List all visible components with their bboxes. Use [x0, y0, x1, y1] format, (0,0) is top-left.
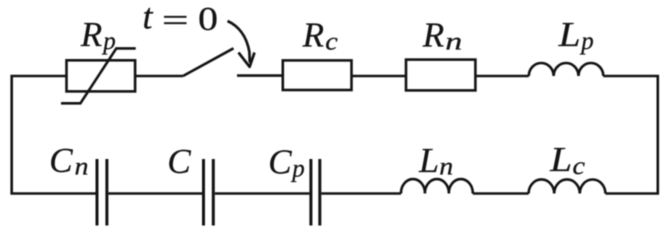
svg-text:c: c — [325, 28, 338, 55]
svg-text:C: C — [268, 143, 292, 182]
svg-text:C: C — [167, 142, 191, 181]
svg-text:=: = — [162, 2, 189, 38]
svg-text:t: t — [143, 0, 154, 36]
svg-text:L: L — [557, 15, 580, 54]
svg-text:R: R — [422, 16, 444, 55]
svg-text:L: L — [549, 140, 572, 179]
svg-text:n: n — [439, 153, 453, 180]
svg-text:c: c — [573, 153, 586, 180]
svg-text:p: p — [101, 28, 116, 55]
svg-text:p: p — [579, 28, 594, 55]
svg-text:n: n — [75, 153, 89, 180]
svg-text:p: p — [290, 156, 305, 183]
svg-text:0: 0 — [198, 1, 218, 38]
svg-text:n: n — [445, 28, 462, 55]
svg-text:R: R — [302, 16, 324, 55]
svg-text:C: C — [49, 141, 73, 180]
svg-text:R: R — [80, 15, 102, 54]
svg-text:L: L — [418, 141, 439, 180]
